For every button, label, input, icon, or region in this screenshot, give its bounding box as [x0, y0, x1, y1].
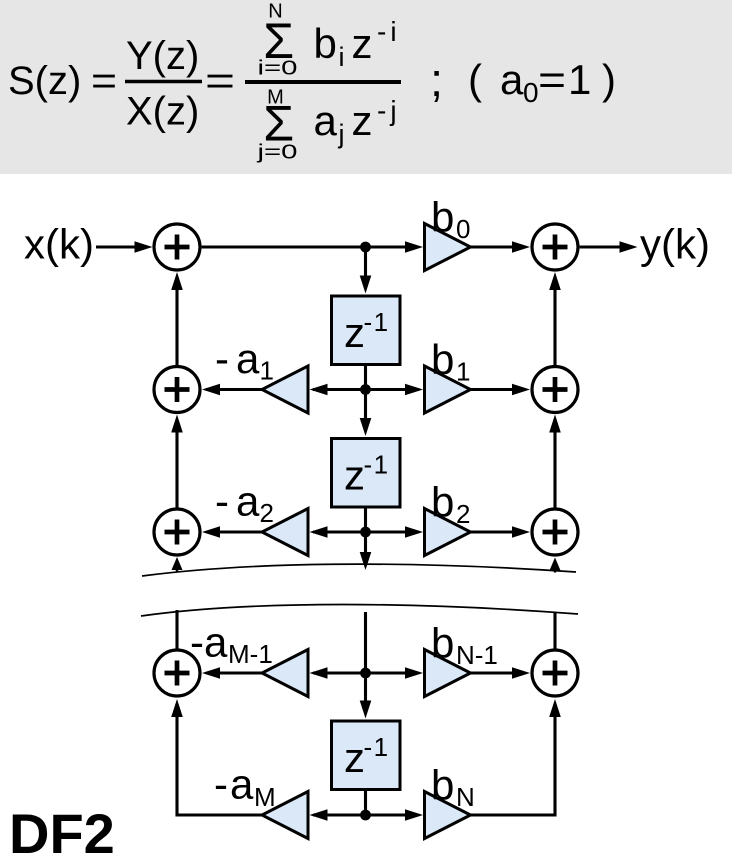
arrow stub into adder A3 bottom — [176, 568, 179, 572]
svg-text:b: b — [431, 762, 454, 809]
adder A6 — [532, 367, 578, 413]
svg-text:2: 2 — [260, 498, 274, 528]
svg-text:b: b — [431, 479, 454, 526]
svg-text:z: z — [344, 734, 365, 781]
formula big fraction bar — [245, 80, 401, 84]
wire node to gain bN-1 — [366, 671, 420, 674]
svg-text:0: 0 — [456, 214, 470, 244]
wire corner to adder A8 — [471, 715, 556, 815]
svg-text:z: z — [352, 97, 373, 144]
adder A4 — [154, 650, 200, 696]
svg-text:N: N — [456, 782, 475, 812]
arrow into gain bN base — [405, 809, 423, 821]
wire adder A5 to y(k) — [580, 245, 621, 248]
formula fraction bar Y/X — [125, 80, 202, 84]
svg-text:-1: -1 — [364, 307, 390, 337]
arrow into adder A1 bottom — [171, 272, 183, 290]
gain -a1 triangle — [262, 366, 308, 413]
wire gain bN-1 to adder — [471, 671, 514, 674]
arrow into right adder — [512, 384, 530, 396]
svg-text:1: 1 — [456, 357, 470, 387]
formula panel background — [0, 0, 732, 174]
wire adder A1 to gain b0 — [202, 245, 406, 248]
arrow stub into adder A7 bottom — [554, 569, 557, 573]
arrow into gain b0 — [405, 241, 423, 253]
arrow into adder A5 — [512, 241, 530, 253]
wire node to gain -a1 — [313, 388, 366, 391]
arrow into gain -aM-1 base — [310, 667, 328, 679]
svg-text:b: b — [431, 194, 454, 241]
arrow into gain bN-1 base — [405, 667, 423, 679]
wire adder A2 to adder A1 — [175, 289, 178, 365]
svg-text:;: ; — [430, 53, 443, 106]
arrow to output y(k) — [620, 241, 638, 253]
node N3 — [360, 527, 371, 538]
wire center below break — [364, 612, 367, 702]
wire gain -a2 to adder — [206, 530, 262, 533]
svg-text:j=0: j=0 — [256, 142, 297, 164]
svg-text:X(z): X(z) — [126, 90, 199, 134]
wire right below break — [553, 613, 556, 650]
svg-text:M: M — [254, 782, 276, 812]
gain -a2 triangle — [262, 509, 308, 556]
arrow into adder A1 — [135, 241, 153, 253]
arrow into adder A4 bottom — [171, 699, 183, 717]
gain bN-1 triangle — [425, 650, 471, 697]
svg-text:a: a — [236, 478, 260, 525]
svg-text:z: z — [352, 20, 373, 67]
node N5 — [360, 810, 371, 821]
svg-text:y(k): y(k) — [640, 221, 710, 268]
svg-text:-: - — [215, 335, 229, 382]
svg-text:DF2: DF2 — [9, 802, 115, 862]
wire node to gain -a2 — [313, 530, 366, 533]
wire x(k) to adder A1 — [96, 245, 136, 248]
svg-text:1: 1 — [260, 356, 274, 386]
svg-text:b: b — [431, 620, 454, 667]
arrow into gain -a1 base — [310, 384, 328, 396]
svg-text:x(k): x(k) — [24, 221, 94, 268]
arrow into adder A5 bottom — [549, 272, 561, 290]
gain b1 triangle — [425, 366, 471, 413]
arrow into adder A6 bottom — [549, 415, 561, 433]
wire delay Z2 to node N3 — [364, 509, 367, 554]
wire node to gain -aM — [313, 813, 366, 816]
wire left below break — [175, 610, 178, 650]
adder A1 — [154, 224, 200, 270]
svg-text:0: 0 — [523, 77, 539, 108]
wire node to gain b1 — [366, 388, 420, 391]
break wavy line upper — [142, 564, 576, 576]
arrow into right adder — [512, 667, 530, 679]
svg-text:M-1: M-1 — [228, 639, 273, 669]
gain b0 triangle — [425, 224, 471, 271]
arrow into delay Z2 — [360, 418, 372, 436]
svg-text:j: j — [338, 119, 345, 149]
delay block Z3 — [332, 721, 401, 790]
wire adder A7 to adder A6 — [553, 431, 556, 508]
arrow into left adder — [202, 526, 220, 538]
gain bN triangle — [425, 792, 471, 839]
wire gain -aM-1 to adder — [206, 671, 262, 674]
svg-text:=: = — [205, 59, 235, 103]
svg-text:(: ( — [468, 56, 482, 103]
svg-text:i=0: i=0 — [258, 58, 298, 80]
arrow into gain -aM base — [310, 809, 328, 821]
arrow into gain b2 base — [405, 526, 423, 538]
svg-text:-: - — [214, 761, 228, 808]
svg-text:=: = — [91, 59, 117, 103]
wire delay Z1 to node N2 — [364, 366, 367, 420]
svg-text:-j: -j — [377, 95, 401, 126]
wire adder A3 to adder A2 — [175, 431, 178, 508]
arrow into right adder — [512, 526, 530, 538]
adder A7 — [532, 509, 578, 555]
adder A5 — [532, 224, 578, 270]
wire node to gain -aM-1 — [313, 671, 366, 674]
svg-text:): ) — [602, 56, 616, 103]
wire gain b2 to adder — [471, 530, 514, 533]
gain -aM triangle — [262, 792, 308, 839]
wire adder A6 to adder A5 — [553, 289, 556, 365]
svg-text:N-1: N-1 — [456, 640, 498, 670]
arrow into adder A2 bottom — [171, 415, 183, 433]
break wavy line lower — [141, 605, 578, 617]
svg-text:a: a — [314, 97, 338, 144]
wire gain b1 to adder — [471, 388, 514, 391]
svg-text:a: a — [230, 761, 254, 808]
svg-text:-: - — [215, 478, 229, 525]
wire node N1 down — [364, 247, 367, 278]
arrow down at break — [360, 552, 372, 570]
svg-text:1: 1 — [568, 56, 591, 103]
svg-text:S(z): S(z) — [8, 59, 81, 103]
wire node to gain b2 — [366, 530, 420, 533]
svg-text:2: 2 — [456, 499, 470, 529]
delay block Z1 — [332, 296, 401, 365]
adder A2 — [154, 367, 200, 413]
svg-text:=: = — [538, 56, 566, 103]
svg-text:z: z — [344, 452, 365, 499]
arrow into gain b1 base — [405, 384, 423, 396]
arrow into adder A8 bottom — [549, 699, 561, 717]
svg-text:a: a — [500, 56, 524, 103]
node N4 — [360, 668, 371, 679]
adder A8 — [532, 650, 578, 696]
delay block Z2 — [332, 439, 401, 508]
node N2 — [360, 384, 371, 395]
wire node to gain bN — [366, 813, 420, 816]
svg-text:-i: -i — [377, 16, 401, 47]
wire delay Z3 to node N5 — [364, 790, 367, 816]
svg-text:a: a — [236, 335, 260, 382]
svg-text:b: b — [431, 336, 454, 383]
svg-text:Y(z): Y(z) — [126, 34, 199, 78]
adder A3 — [154, 509, 200, 555]
arrow into left adder — [202, 384, 220, 396]
svg-text:i: i — [339, 42, 345, 72]
gain b2 triangle — [425, 509, 471, 556]
svg-text:z: z — [344, 309, 365, 356]
wire gain b0 to adder A5 — [471, 245, 514, 248]
arrow into gain -a2 base — [310, 526, 328, 538]
svg-text:-1: -1 — [364, 732, 390, 762]
arrow into delay Z1 — [360, 276, 372, 294]
arrow into delay Z3 — [360, 701, 372, 719]
wire corner to adder A4 — [177, 715, 262, 815]
gain -aM-1 triangle — [262, 650, 308, 697]
wire gain -a1 to adder — [206, 388, 262, 391]
svg-text:b: b — [314, 20, 337, 67]
arrow into left adder — [202, 667, 220, 679]
node N1 — [360, 242, 371, 253]
svg-text:-1: -1 — [364, 450, 390, 480]
